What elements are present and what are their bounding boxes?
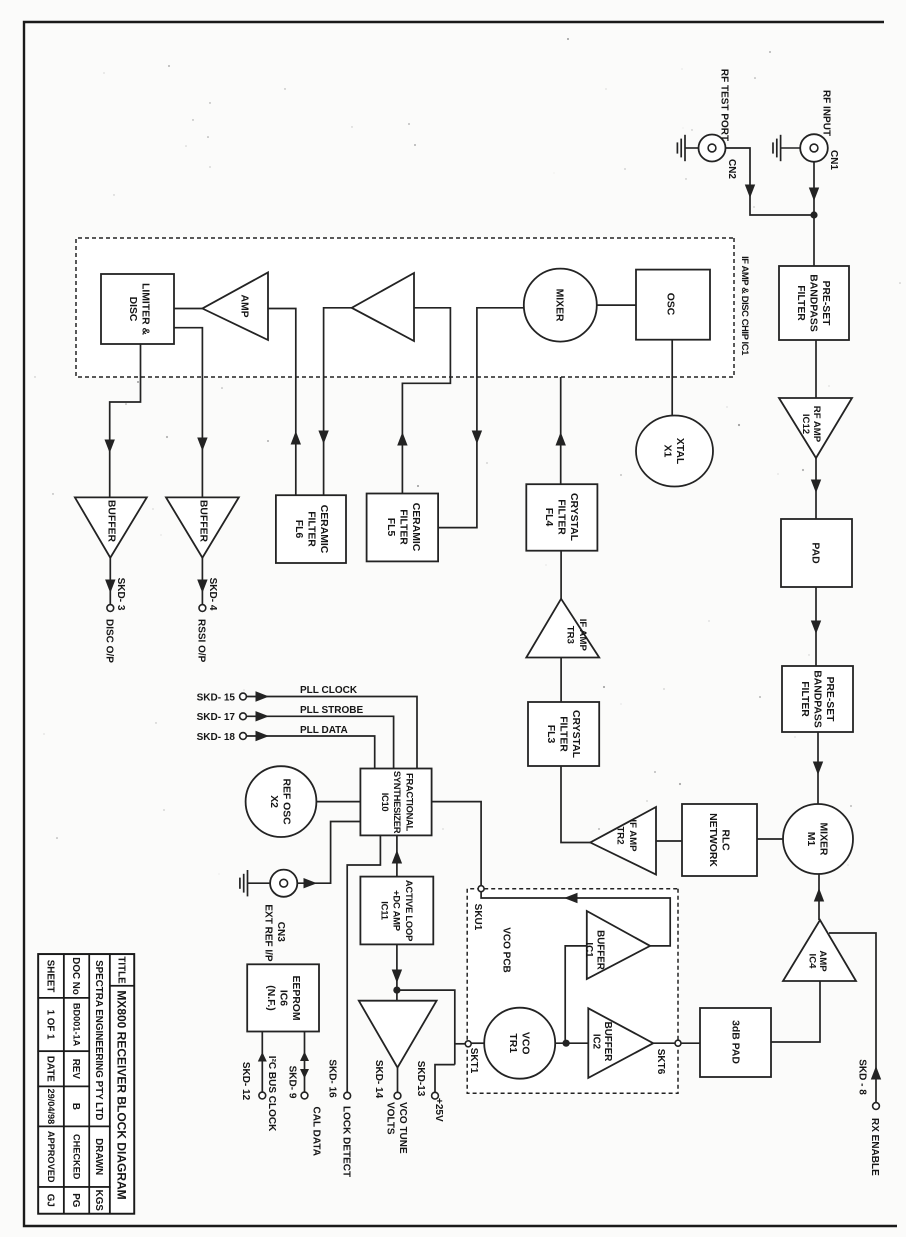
wire SKD-15 to IC10	[246, 697, 417, 769]
svg-text:VOLTS: VOLTS	[385, 1102, 396, 1135]
svg-text:SPECTRA ENGINEERING PTY LTD: SPECTRA ENGINEERING PTY LTD	[93, 960, 104, 1120]
svg-text:BANDPASS: BANDPASS	[811, 670, 822, 728]
svg-text:EXT REF I/P: EXT REF I/P	[262, 904, 273, 962]
title block row 2: company / drawn	[89, 954, 110, 1126]
network RLC NETWORK	[682, 804, 757, 876]
svg-text:BD001-1A: BD001-1A	[71, 1003, 81, 1047]
wire FL4 to IC1 mixer	[560, 342, 562, 485]
svg-text:IC1: IC1	[583, 942, 594, 958]
svg-text:FILTER: FILTER	[799, 681, 810, 717]
node junction VCO output	[563, 1040, 570, 1047]
svg-text:AMP: AMP	[238, 294, 249, 317]
filter CRYSTAL FILTER FL3	[528, 702, 599, 766]
buffer BUFFER (DISC)	[75, 497, 147, 557]
svg-text:PLL STROBE: PLL STROBE	[300, 705, 363, 716]
svg-text:CHECKED: CHECKED	[71, 1134, 81, 1180]
wire IC10 to SKU1	[432, 802, 482, 886]
svg-text:XTAL: XTAL	[674, 438, 685, 465]
node SKD-16	[344, 1092, 351, 1099]
buffer BUFFER IC2	[588, 1008, 653, 1078]
wire buffer to SKD-4	[201, 558, 203, 605]
svg-text:29/04/98: 29/04/98	[46, 1089, 56, 1125]
transistor amp IF AMP TR3	[526, 599, 599, 658]
svg-text:RSSI O/P: RSSI O/P	[195, 619, 206, 663]
node SKD-12	[259, 1092, 266, 1099]
svg-text:PG: PG	[70, 1193, 81, 1208]
svg-text:1 OF 1: 1 OF 1	[45, 1010, 56, 1040]
svg-text:RF TEST PORT: RF TEST PORT	[719, 69, 730, 141]
mixer M1	[783, 804, 853, 874]
transistor amp IF AMP TR2	[590, 807, 656, 875]
svg-text:FILTER: FILTER	[557, 716, 568, 752]
wire loop amp to SKD-14	[397, 1068, 399, 1092]
svg-text:DATE: DATE	[45, 1056, 56, 1082]
op-amp AMP (IC1 internal)	[202, 272, 268, 340]
wire VCO to junction and buffer IC2	[555, 1042, 588, 1044]
svg-text:IC6: IC6	[277, 990, 288, 1006]
wire OSC to XTAL X1	[671, 340, 673, 416]
node RX ENABLE	[873, 1103, 880, 1110]
buffer BUFFER IC1	[587, 911, 650, 979]
wire EEPROM to SKD-9 (CAL DATA)	[304, 1032, 306, 1093]
svg-text:FL3: FL3	[545, 725, 556, 744]
wire RX ENABLE to IC4 (SKD-8)	[829, 933, 876, 1102]
ground (CN2)	[685, 147, 698, 149]
attenuator 3dB PAD	[700, 1008, 771, 1077]
title block row 1: TITLE	[110, 954, 134, 986]
connector CN3 (EXT REF I/P)	[270, 870, 297, 897]
svg-text:IC11: IC11	[379, 901, 390, 920]
wire FL5 to amp (unlabeled)	[402, 308, 450, 494]
op-amp RF AMP IC12	[779, 398, 852, 458]
svg-text:CAL DATA: CAL DATA	[311, 1107, 322, 1156]
wire RF AMP to PAD	[815, 458, 817, 519]
op-amp loop amp (unlabeled)	[359, 1001, 437, 1068]
svg-text:GJ: GJ	[45, 1194, 56, 1207]
svg-text:SKD - 8: SKD - 8	[857, 1059, 868, 1095]
svg-text:CN1: CN1	[828, 150, 839, 170]
wire IC4 to mixer M1	[818, 874, 820, 920]
svg-text:SHEET: SHEET	[45, 960, 56, 993]
svg-text:RLC: RLC	[720, 829, 731, 851]
crystal XTAL X1	[636, 416, 713, 487]
svg-text:IF AMP: IF AMP	[577, 619, 588, 652]
wire LIMITER to DISC buffer	[110, 344, 141, 497]
dashed box IF AMP & DISC CHIP IC1	[76, 238, 734, 377]
svg-text:IC4: IC4	[806, 954, 817, 970]
svg-text:FRACTIONAL: FRACTIONAL	[405, 773, 416, 832]
svg-text:IC10: IC10	[380, 793, 391, 812]
svg-text:CERAMIC: CERAMIC	[410, 503, 421, 552]
svg-text:SKD- 17: SKD- 17	[197, 712, 236, 723]
svg-text:KGS: KGS	[93, 1190, 104, 1212]
oscillator VCO TR1	[484, 1008, 555, 1079]
svg-text:SKD- 12: SKD- 12	[240, 1062, 251, 1101]
wire FL3 to IF AMP TR3	[560, 658, 562, 703]
svg-text:EEPROM: EEPROM	[290, 975, 301, 1020]
svg-text:SYNTHESIZER: SYNTHESIZER	[392, 771, 403, 834]
title block table	[38, 954, 134, 1213]
svg-text:SKD- 9: SKD- 9	[287, 1066, 298, 1099]
svg-text:CN2: CN2	[726, 159, 737, 179]
svg-text:X1: X1	[662, 445, 673, 458]
svg-text:APPROVED: APPROVED	[46, 1131, 56, 1183]
wire SKD-18 to IC10	[246, 736, 374, 769]
wire mixer to FL5	[438, 308, 524, 528]
ground (CN3)	[248, 882, 271, 884]
svg-text:MIXER: MIXER	[554, 289, 565, 322]
svg-text:IC2: IC2	[591, 1034, 602, 1050]
svg-text:FL5: FL5	[385, 518, 396, 537]
wire SKT6 to 3dB PAD	[681, 1042, 700, 1044]
svg-text:FILTER: FILTER	[305, 511, 316, 547]
svg-text:IF AMP & DISC CHIP IC1: IF AMP & DISC CHIP IC1	[740, 256, 751, 355]
svg-text:BANDPASS: BANDPASS	[807, 274, 818, 332]
svg-text:SKD- 15: SKD- 15	[197, 692, 236, 703]
svg-text:M1: M1	[805, 832, 816, 847]
block LIMITER & DISC	[101, 274, 174, 344]
svg-text:SKT1: SKT1	[468, 1048, 479, 1074]
wire BPF2 to mixer M1	[817, 732, 819, 804]
wire CN3 to IC10	[297, 822, 360, 884]
filter CRYSTAL FILTER FL4	[526, 484, 597, 551]
memory EEPROM IC6 (N.F.)	[247, 964, 319, 1031]
svg-text:VCO TUNE: VCO TUNE	[397, 1102, 408, 1154]
wire +25V branch	[435, 1065, 455, 1093]
svg-text:PRE-SET: PRE-SET	[820, 280, 831, 326]
svg-text:SKD-13: SKD-13	[415, 1061, 426, 1097]
svg-text:BUFFER: BUFFER	[594, 930, 605, 970]
svg-text:RX ENABLE: RX ENABLE	[869, 1118, 880, 1176]
dashed box VCO PCB	[467, 889, 678, 1094]
svg-text:FL6: FL6	[293, 520, 304, 539]
svg-text:DISC: DISC	[127, 297, 138, 322]
title block row 3: doc no	[64, 954, 89, 998]
filter CERAMIC FILTER FL5	[367, 494, 439, 562]
wire AMP to LIMITER & DISC	[174, 308, 202, 310]
wire SKD-17 to IC10	[246, 716, 393, 768]
svg-text:BUFFER: BUFFER	[197, 500, 208, 543]
filter CERAMIC FILTER FL6	[276, 495, 346, 563]
wire buffer to SKD-3	[109, 558, 111, 605]
svg-text:SKD- 4: SKD- 4	[207, 578, 218, 611]
svg-text:B: B	[70, 1103, 81, 1110]
wire junction to buffer IC1	[565, 946, 587, 1043]
svg-text:CN3: CN3	[275, 922, 286, 942]
wire IC11 to loop amp	[396, 944, 398, 1000]
svg-text:DOC No: DOC No	[70, 957, 81, 995]
svg-text:PLL CLOCK: PLL CLOCK	[300, 685, 358, 696]
wire junction to SKT1	[397, 990, 455, 1065]
op-amp (IC1 internal, unlabeled)	[352, 273, 414, 341]
svg-text:RF AMP: RF AMP	[811, 406, 822, 443]
svg-text:CERAMIC: CERAMIC	[318, 505, 329, 554]
node SKD-13 (+25V)	[432, 1092, 439, 1099]
svg-text:PAD: PAD	[809, 542, 820, 564]
amplifier ACTIVE LOOP +DC AMP IC11	[360, 877, 433, 945]
node SKD-18	[240, 733, 247, 740]
wire FL6 to AMP	[268, 309, 296, 496]
wire REF OSC to IC10	[316, 801, 360, 803]
wire CN2 to junction	[726, 148, 815, 215]
svg-text:TR1: TR1	[507, 1033, 518, 1053]
connector CN2 (RF TEST PORT)	[699, 135, 726, 162]
node SKU1	[478, 886, 484, 892]
svg-text:BUFFER: BUFFER	[602, 1022, 613, 1062]
wire TR2 to crystal filter FL3	[561, 766, 590, 843]
svg-text:LIMITER &: LIMITER &	[140, 283, 151, 335]
wire buffer IC1 to SKU1	[481, 892, 670, 946]
title block row 4: sheet	[38, 954, 64, 998]
svg-text:I²C BUS CLOCK: I²C BUS CLOCK	[266, 1056, 277, 1132]
wire mixer to OSC	[597, 304, 636, 306]
ground (CN1)	[781, 147, 800, 149]
wire 3dB PAD to AMP IC4	[771, 981, 820, 1042]
svg-text:PLL DATA: PLL DATA	[300, 725, 348, 736]
svg-text:ACTIVE LOOP: ACTIVE LOOP	[404, 880, 415, 941]
svg-text:LOCK DETECT: LOCK DETECT	[341, 1106, 352, 1177]
wire PAD to BPF2	[815, 587, 817, 666]
synthesizer FRACTIONAL SYNTHESIZER IC10	[360, 769, 431, 836]
svg-text:CRYSTAL: CRYSTAL	[570, 710, 581, 759]
svg-text:X2: X2	[268, 795, 279, 808]
connector CN1 (RF INPUT)	[800, 134, 828, 162]
wire LIMITER to RSSI buffer	[174, 328, 202, 498]
svg-text:SKD- 14: SKD- 14	[373, 1060, 384, 1099]
svg-text:(N.F.): (N.F.)	[265, 985, 276, 1010]
svg-text:SKU1: SKU1	[472, 904, 483, 931]
op-amp AMP IC4	[783, 920, 856, 981]
svg-text:3dB PAD: 3dB PAD	[729, 1020, 740, 1064]
node SKD-14	[394, 1092, 401, 1099]
svg-text:PRE-SET: PRE-SET	[824, 676, 835, 722]
node junction loop amp input	[393, 987, 400, 994]
oscillator OSC	[636, 270, 710, 340]
svg-text:NETWORK: NETWORK	[707, 813, 718, 867]
svg-text:OSC: OSC	[664, 293, 675, 316]
wire amp to FL6	[324, 308, 352, 495]
svg-text:VCO: VCO	[519, 1032, 530, 1055]
svg-text:SKD- 3: SKD- 3	[115, 578, 126, 611]
wire BPF1 to RF AMP	[815, 340, 817, 398]
svg-text:DISC O/P: DISC O/P	[103, 619, 114, 663]
svg-text:+25V: +25V	[433, 1098, 444, 1122]
oscillator REF OSC X2	[246, 766, 317, 837]
filter PRE-SET BANDPASS FILTER (2nd)	[782, 666, 853, 732]
node SKD-17	[240, 713, 247, 720]
svg-text:FL4: FL4	[543, 508, 554, 527]
svg-text:IC12: IC12	[800, 414, 811, 434]
attenuator PAD	[781, 519, 852, 587]
wire EEPROM to SKD-12 (I2C BUS CLOCK)	[261, 1032, 263, 1093]
node SKD-3	[107, 605, 114, 612]
svg-text:FILTER: FILTER	[795, 285, 806, 321]
svg-text:FILTER: FILTER	[397, 509, 408, 545]
svg-text:IF AMP: IF AMP	[627, 819, 638, 852]
wire IC2 to SKT6	[653, 1042, 675, 1044]
svg-text:SKD- 18: SKD- 18	[197, 732, 236, 743]
svg-text:REF OSC: REF OSC	[281, 779, 292, 826]
svg-text:AMP: AMP	[817, 950, 828, 972]
filter PRE-SET BANDPASS FILTER (1st)	[779, 266, 849, 340]
node junction CN1/CN2	[810, 211, 817, 218]
svg-text:MIXER: MIXER	[818, 823, 829, 856]
node SKD-9	[301, 1092, 308, 1099]
wire SKT1 to VCO	[471, 1042, 484, 1044]
svg-text:+DC AMP: +DC AMP	[392, 890, 403, 931]
buffer BUFFER (RSSI)	[166, 497, 239, 557]
svg-text:DRAWN: DRAWN	[93, 1138, 104, 1175]
node SKD-4	[199, 605, 206, 612]
node SKT1	[465, 1041, 471, 1047]
wire CN1 to junction	[813, 162, 815, 266]
wire RLC to IF AMP TR2	[656, 840, 682, 842]
svg-text:CRYSTAL: CRYSTAL	[568, 493, 579, 542]
node SKT6	[675, 1040, 681, 1046]
mixer (IC1 internal)	[524, 269, 597, 342]
svg-text:REV: REV	[70, 1059, 81, 1080]
wire TR3 to crystal filter FL4	[560, 551, 562, 599]
svg-text:TR3: TR3	[564, 626, 575, 644]
svg-text:VCO PCB: VCO PCB	[500, 927, 511, 973]
svg-text:TR2: TR2	[614, 826, 625, 844]
svg-text:FILTER: FILTER	[555, 499, 566, 535]
wire M1 to RLC network	[757, 838, 783, 840]
svg-text:TITLE: TITLE	[116, 956, 127, 984]
svg-text:BUFFER: BUFFER	[105, 500, 116, 543]
node SKD-15	[240, 693, 247, 700]
svg-text:SKT6: SKT6	[655, 1049, 666, 1075]
svg-text:SKD- 16: SKD- 16	[327, 1059, 338, 1098]
svg-text:RF INPUT: RF INPUT	[821, 90, 832, 136]
svg-text:MX800 RECEIVER BLOCK DIAGRAM: MX800 RECEIVER BLOCK DIAGRAM	[115, 990, 129, 1199]
wire IC11 to IC10	[396, 835, 398, 876]
wire IC10 to lock detect	[347, 835, 380, 1092]
